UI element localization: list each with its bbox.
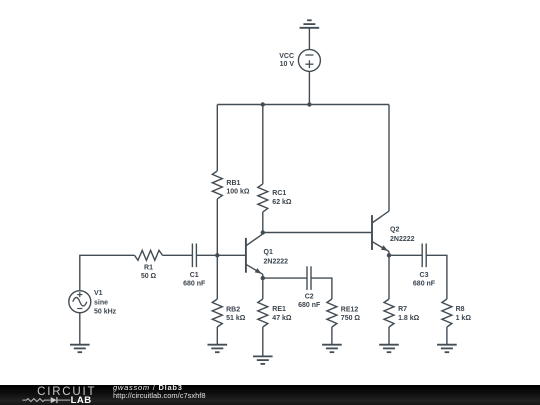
voltage source VCC (10 V)	[298, 49, 320, 71]
node input junction	[215, 253, 219, 257]
resistor RC1 (62 k&#937;)	[258, 184, 268, 212]
ground under R8	[437, 344, 457, 346]
capacitor C2 (680 nF)	[306, 266, 308, 290]
ground under R7	[379, 344, 399, 346]
ground (flipped, above VCC)	[300, 27, 320, 29]
wire RE12 to ground	[331, 327, 333, 345]
wire Q2 emitter to C3	[389, 254, 422, 256]
resistor RB2 (51 k&#937;)	[212, 299, 222, 327]
wire rail down to RC1	[262, 105, 264, 184]
svg-text:R1: R1	[144, 265, 153, 272]
resistor R7 (1.8 k&#937;)	[384, 299, 394, 327]
svg-text:47 kΩ: 47 kΩ	[272, 315, 292, 322]
svg-text:50 Ω: 50 Ω	[141, 273, 157, 280]
wire RB2 to ground	[216, 327, 218, 345]
wire RB1 to input node	[216, 199, 218, 255]
wire V1 to ground	[79, 313, 81, 345]
wire C1 to input node	[196, 254, 217, 256]
svg-text:sine: sine	[94, 299, 108, 306]
resistor RB1 (100 k&#937;)	[212, 171, 222, 199]
svg-text:RB1: RB1	[226, 180, 240, 187]
ground under RE12	[322, 344, 342, 346]
svg-text:2N2222: 2N2222	[390, 236, 415, 243]
node Q1 emitter	[261, 276, 265, 280]
node Q2 emitter	[387, 253, 391, 257]
svg-text:RE1: RE1	[272, 306, 286, 313]
resistor R8 (1 k&#937;)	[442, 299, 452, 327]
svg-text:Q1: Q1	[264, 249, 273, 256]
resistor R1 (50 &#937;)	[135, 250, 163, 260]
svg-text:R8: R8	[456, 306, 465, 313]
wire VCC to top rail	[308, 71, 310, 104]
svg-text:10 V: 10 V	[280, 61, 295, 68]
resistor RE1 (47 k&#937;)	[258, 299, 268, 327]
svg-text:VCC: VCC	[279, 53, 294, 60]
svg-text:750 Ω: 750 Ω	[341, 315, 361, 322]
svg-text:C3: C3	[420, 272, 429, 279]
svg-text:R7: R7	[398, 306, 407, 313]
wire R7 to ground	[388, 327, 390, 345]
svg-text:51 kΩ: 51 kΩ	[226, 315, 246, 322]
CircuitLab logo	[0, 385, 110, 405]
wire C2 to RE12	[311, 278, 332, 299]
wire input node to Q1 base	[217, 254, 246, 256]
node rail-RC1 junction	[261, 102, 265, 106]
wire RE1 to ground	[262, 327, 264, 356]
wire emitter node to RE1	[262, 278, 264, 299]
svg-text:680 nF: 680 nF	[413, 280, 436, 287]
transistor Q1 (2N2222)	[245, 238, 247, 273]
ground under RE1	[253, 355, 273, 357]
svg-text:1.8 kΩ: 1.8 kΩ	[398, 315, 420, 322]
capacitor C3 (680 nF)	[421, 244, 423, 268]
wire emitter node to R7	[388, 255, 390, 299]
wire Q1 collector to Q2 base	[263, 232, 372, 234]
wire top rail	[217, 104, 389, 106]
svg-text:RB2: RB2	[226, 307, 240, 314]
svg-text:RC1: RC1	[272, 190, 286, 197]
svg-text:C1: C1	[190, 272, 199, 279]
source V1 (sine 50 kHz)	[69, 291, 91, 313]
resistor RE12 (750 &#937;)	[327, 299, 337, 327]
wire ground to VCC	[308, 28, 310, 50]
capacitor C1 (680 nF)	[191, 244, 193, 268]
svg-text:680 nF: 680 nF	[183, 281, 206, 288]
footer bar	[0, 385, 540, 405]
svg-text:RE12: RE12	[341, 306, 359, 313]
svg-text:2N2222: 2N2222	[264, 258, 289, 265]
wire Q1 emitter down	[262, 274, 264, 278]
svg-text:Q2: Q2	[390, 227, 399, 234]
wire rail down to RB1	[216, 105, 218, 171]
svg-text:50 kHz: 50 kHz	[94, 309, 117, 316]
ground under V1	[70, 344, 90, 346]
wire input node down to RB2	[216, 255, 218, 299]
wire Q1 emitter to C2	[263, 277, 307, 279]
svg-text:62 kΩ: 62 kΩ	[272, 199, 292, 206]
node Q1 collector	[261, 230, 265, 234]
svg-text:100 kΩ: 100 kΩ	[226, 189, 250, 196]
svg-text:V1: V1	[94, 290, 103, 297]
wire Q2 collector to rail	[388, 105, 390, 212]
svg-text:680 nF: 680 nF	[298, 302, 321, 309]
wire R8 to ground	[446, 327, 448, 345]
wire Q2 emitter down	[388, 252, 390, 256]
ground under RB2	[208, 344, 228, 346]
svg-text:LAB: LAB	[71, 395, 92, 405]
wire R1 to C1	[163, 254, 193, 256]
wire RC1 to Q1 collector node	[262, 212, 264, 233]
svg-text:1 kΩ: 1 kΩ	[456, 315, 472, 322]
node VCC-rail junction	[307, 102, 311, 106]
wire C3 to R8	[426, 255, 447, 299]
svg-text:C2: C2	[305, 294, 314, 301]
wire V1 up to input row	[80, 255, 135, 290]
transistor Q2 (2N2222)	[371, 215, 373, 250]
